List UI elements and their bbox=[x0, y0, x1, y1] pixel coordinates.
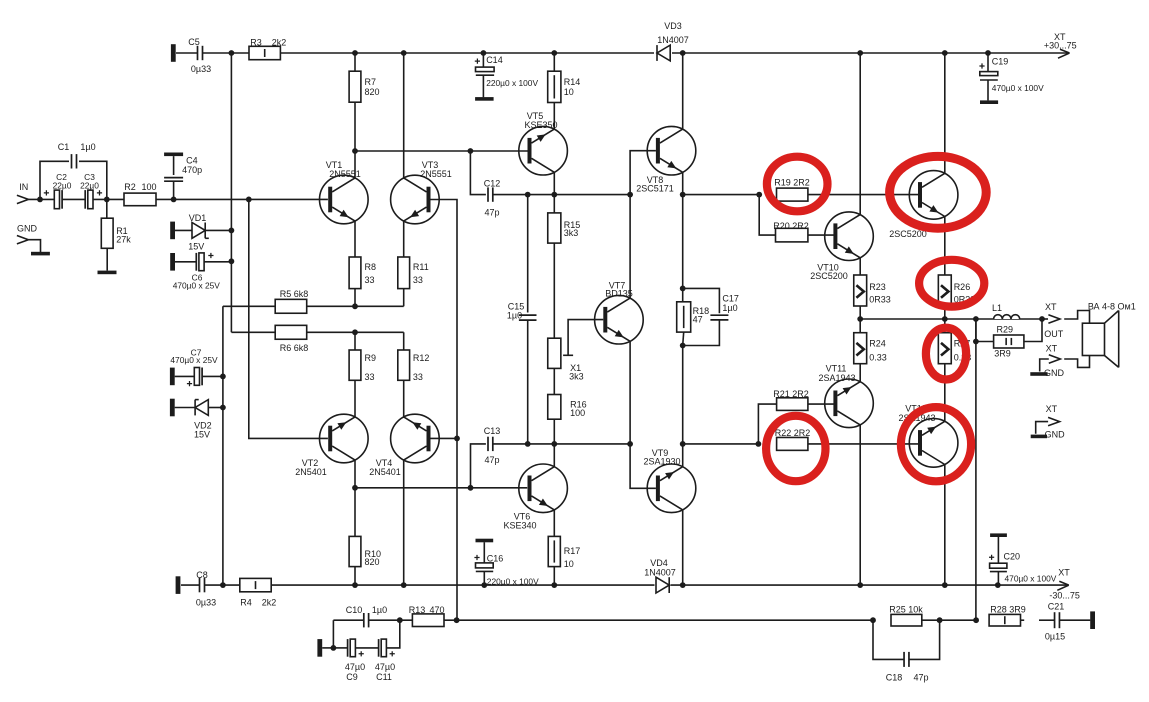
svg-text:470µ0 x 25V: 470µ0 x 25V bbox=[173, 281, 221, 291]
ground bar speaker return bbox=[1030, 372, 1047, 376]
svg-text:R17: R17 bbox=[564, 546, 581, 556]
node VT4 collector rail bbox=[401, 582, 407, 588]
wire IN to C2 bbox=[28, 198, 54, 200]
wire X1 to R16 bbox=[553, 368, 555, 394]
node feedback to VT3/VT4 bases bbox=[454, 617, 460, 623]
speaker cone bbox=[1105, 311, 1119, 368]
wire rail to VT8 collector bbox=[682, 53, 684, 129]
transistor VT3 2N5551 bbox=[391, 175, 440, 224]
capacitor C19 minus plate bbox=[980, 79, 998, 81]
resistor R7 bbox=[349, 71, 361, 102]
wire VT9 collector to rail bbox=[682, 510, 684, 585]
terminal bar C5 bbox=[171, 44, 176, 62]
wire C10 corner down bbox=[332, 620, 334, 648]
svg-text:22µ0: 22µ0 bbox=[53, 180, 72, 190]
wire VT2 collector to R10 bbox=[354, 460, 356, 536]
capacitor C1 bbox=[71, 154, 73, 168]
svg-text:R14: R14 bbox=[564, 77, 581, 87]
node C20 rail bbox=[995, 582, 1001, 588]
wire C3 to R2 bbox=[93, 198, 124, 200]
zener diode VD2 15V bbox=[195, 400, 208, 416]
svg-text:470µ0 x 25V: 470µ0 x 25V bbox=[170, 355, 218, 365]
wire to R21 bbox=[758, 404, 776, 444]
wire C4 to input line bbox=[173, 181, 175, 199]
wire VT5 base line down to C12 bbox=[470, 151, 486, 195]
plus C16 bbox=[474, 555, 479, 560]
wire node to R9 bbox=[354, 332, 356, 350]
wire R5 right to R8/R11 node bbox=[307, 305, 404, 307]
transistor VT11 2SA1943 bbox=[825, 379, 874, 428]
capacitor C16 plus plate bbox=[476, 563, 494, 568]
inductor L1 bbox=[994, 315, 1020, 319]
wire to C21 left plate bbox=[1039, 619, 1054, 621]
svg-text:GND: GND bbox=[1044, 368, 1065, 378]
node R29 left bbox=[973, 339, 979, 345]
resistor R22 bbox=[777, 437, 808, 450]
wire R7 to VT1 collector bbox=[354, 102, 356, 151]
transistor VT2 2N5401 bbox=[320, 414, 369, 463]
terminal bar C20 bbox=[990, 533, 1007, 537]
wire bottom rail left of C8 bbox=[181, 584, 199, 586]
svg-text:+30...75: +30...75 bbox=[1044, 41, 1077, 51]
capacitor C6 bbox=[195, 253, 197, 271]
svg-text:0R33: 0R33 bbox=[869, 295, 891, 305]
capacitor C14 plus plate bbox=[476, 67, 495, 72]
resistor R28 bbox=[989, 614, 1020, 626]
node VT2 collector / VT6 base line bbox=[352, 485, 358, 491]
capacitor C11 bbox=[378, 639, 380, 657]
wire C1 loop left bbox=[40, 161, 69, 199]
wire C6 left bbox=[175, 261, 196, 263]
wire bottom rail VD4 to -V arrow bbox=[671, 584, 1068, 586]
svg-text:470µ0 x 100V: 470µ0 x 100V bbox=[992, 83, 1044, 93]
red ring around R27 bbox=[926, 328, 966, 380]
wire VT7 emitter down bbox=[629, 341, 631, 444]
svg-text:47: 47 bbox=[693, 315, 703, 325]
resistor R18 bbox=[677, 302, 691, 332]
resistor R20 bbox=[776, 228, 808, 242]
wire C3 node to R1 bbox=[106, 199, 108, 218]
wire GND connector bbox=[28, 240, 40, 252]
wire bottom drive line bbox=[493, 443, 630, 445]
svg-text:KSE350: KSE350 bbox=[524, 120, 557, 130]
terminal bar C4 bbox=[164, 153, 183, 157]
svg-text:33: 33 bbox=[413, 372, 423, 382]
wire C2 to C3 bbox=[62, 198, 85, 200]
svg-text:R23: R23 bbox=[869, 282, 886, 292]
wire gnd connector speaker bbox=[1040, 359, 1049, 372]
resistor R10 bbox=[349, 536, 361, 566]
wire top rail VD3 to +V arrow bbox=[672, 52, 1068, 54]
wire to C9 bbox=[333, 647, 347, 649]
resistor R16 bbox=[548, 395, 561, 420]
wire top drive right segment bbox=[683, 194, 760, 196]
wire VT10 emitter to R23 bbox=[859, 258, 861, 275]
wire to R18 bbox=[682, 288, 684, 301]
svg-text:GND: GND bbox=[1045, 429, 1066, 439]
wire to VT5 base bbox=[470, 150, 528, 152]
wire C7 left bbox=[175, 375, 195, 377]
svg-text:R26: R26 bbox=[954, 282, 971, 292]
wire VT5 collector to drive line bbox=[553, 172, 555, 194]
wire R5 left bbox=[223, 305, 275, 307]
wire C18 right branch bbox=[909, 620, 940, 659]
wire R29 to output bbox=[1024, 319, 1042, 342]
node output after L1 bbox=[1039, 316, 1045, 322]
wire C18 left branch bbox=[873, 620, 904, 659]
wire rail to R7 bbox=[354, 53, 356, 71]
svg-text:1µ0: 1µ0 bbox=[722, 303, 737, 313]
wire VD1 left bbox=[175, 229, 192, 231]
wire VT3 emitter to R11 bbox=[403, 221, 405, 257]
wire R2 to VT1 base bbox=[156, 198, 328, 200]
wire C4 bar to plates bbox=[173, 156, 175, 175]
wire VT9 base to drive node bbox=[630, 444, 656, 488]
svg-text:C11: C11 bbox=[376, 672, 392, 682]
terminal bar VD2 bbox=[170, 399, 175, 417]
capacitor C21 bbox=[1054, 612, 1056, 628]
node VT9 base / VT7 emitter bbox=[627, 441, 633, 447]
resistor R4 bbox=[240, 578, 271, 591]
wire R20 to VT10 base bbox=[808, 234, 836, 236]
terminal bar C6 bbox=[170, 253, 175, 271]
node C7 junction bbox=[220, 374, 226, 380]
node VT10 collector rail bbox=[857, 50, 863, 56]
node VT11 collector rail bbox=[857, 582, 863, 588]
wire C15 to bottom drive line bbox=[527, 320, 529, 444]
diode VD4 1N4007 bbox=[656, 577, 669, 593]
svg-text:BD135: BD135 bbox=[605, 289, 633, 299]
svg-text:R2: R2 bbox=[124, 182, 136, 192]
connector XT GND2 arrow bbox=[1048, 417, 1060, 425]
wire C10 to R13 bbox=[369, 619, 412, 621]
red ring around VT12 bbox=[890, 156, 987, 228]
svg-text:C14: C14 bbox=[486, 55, 503, 65]
capacitor C15 bbox=[519, 314, 537, 316]
svg-text:1µ0: 1µ0 bbox=[80, 142, 95, 152]
wire R1 to ground bbox=[106, 248, 108, 270]
wire VD2 to bias vertical bbox=[208, 407, 223, 409]
svg-text:KSE340: KSE340 bbox=[503, 521, 536, 531]
svg-text:2SA1943: 2SA1943 bbox=[818, 373, 855, 383]
terminal bar C16 bbox=[476, 539, 494, 543]
wire C1 loop right bbox=[79, 161, 107, 199]
node C16 rail bbox=[481, 582, 487, 588]
wire top rail C5 to VD3 bbox=[203, 52, 654, 54]
svg-text:2N5401: 2N5401 bbox=[369, 467, 401, 477]
wire C10 left bbox=[333, 619, 363, 621]
node C14 rail bbox=[481, 50, 487, 56]
resistor R5 bbox=[275, 299, 307, 313]
svg-text:10: 10 bbox=[564, 87, 574, 97]
wiper tick X1 bbox=[563, 354, 573, 356]
svg-text:2SC5200: 2SC5200 bbox=[810, 271, 848, 281]
wire R25 to R28 node bbox=[922, 619, 976, 621]
svg-text:-30...75: -30...75 bbox=[1049, 590, 1080, 600]
svg-text:1µ0: 1µ0 bbox=[372, 605, 387, 615]
svg-text:R13: R13 bbox=[409, 605, 426, 615]
red ring around R19 bbox=[767, 157, 828, 212]
node VT3 collector rail bbox=[401, 50, 407, 56]
wire C7 to bias vertical bbox=[202, 375, 223, 377]
svg-text:27k: 27k bbox=[116, 234, 131, 244]
node VT4 base feedback bbox=[454, 436, 460, 442]
wire VT12 emitter to R26 bbox=[944, 217, 946, 276]
svg-text:33: 33 bbox=[413, 275, 423, 285]
svg-text:R6 6k8: R6 6k8 bbox=[280, 343, 309, 353]
node R18/C17 bottom bbox=[680, 343, 686, 349]
wire R16 to bottom drive line bbox=[553, 419, 555, 444]
wire C6 to bias vertical bbox=[205, 261, 232, 263]
wire C11 up to feedback bbox=[386, 620, 399, 648]
node R16 bottom / VT6 collector bbox=[551, 441, 557, 447]
node C15 top bbox=[525, 192, 531, 198]
wire R14 to VT5 emitter bbox=[553, 103, 555, 130]
svg-text:2k2: 2k2 bbox=[262, 598, 277, 608]
wire to R20 bbox=[759, 195, 775, 236]
resistor R11 bbox=[398, 257, 410, 289]
transistor VT1 2N5551 bbox=[320, 175, 369, 224]
wire R12 to VT4 emitter bbox=[403, 380, 405, 417]
svg-text:R9: R9 bbox=[365, 353, 377, 363]
zener diode VD1 15V bbox=[192, 223, 205, 239]
svg-text:R20 2R2: R20 2R2 bbox=[773, 221, 809, 231]
svg-text:C9: C9 bbox=[346, 672, 358, 682]
wire R22 to VT13 base bbox=[808, 443, 918, 445]
terminal bar C19 bbox=[980, 100, 998, 104]
capacitor C9 bbox=[347, 639, 349, 657]
wire top rail left of C5 bbox=[176, 52, 197, 54]
capacitor C19 plus plate bbox=[980, 72, 998, 76]
wire R19 to VT12 base bbox=[808, 194, 918, 196]
node after C3 bbox=[104, 197, 110, 203]
svg-text:470p: 470p bbox=[182, 165, 202, 175]
node output to R29/feedback bbox=[973, 316, 979, 322]
svg-text:47p: 47p bbox=[484, 455, 499, 465]
capacitor C10 bbox=[363, 613, 365, 627]
svg-text:100: 100 bbox=[141, 182, 156, 192]
svg-text:IN: IN bbox=[19, 182, 28, 192]
node R15 top / VT5 collector bbox=[551, 192, 557, 198]
red ring around R26 bbox=[919, 260, 984, 307]
svg-text:0µ15: 0µ15 bbox=[1045, 632, 1065, 642]
svg-text:R3: R3 bbox=[250, 37, 262, 47]
svg-text:33: 33 bbox=[365, 275, 375, 285]
terminal bar VD1 bbox=[170, 222, 175, 240]
svg-text:R22 2R2: R22 2R2 bbox=[775, 428, 811, 438]
wire R28 to C21 bbox=[1021, 619, 1025, 621]
transistor VT6 KSE340 bbox=[519, 464, 568, 513]
wire R18 bottom bbox=[683, 332, 684, 345]
svg-text:470µ0 x 100V: 470µ0 x 100V bbox=[1005, 573, 1057, 583]
node input to VT2 branch bbox=[246, 197, 252, 203]
capacitor C16 minus plate bbox=[476, 570, 493, 572]
capacitor C20 minus plate bbox=[990, 571, 1007, 573]
connector GND arrow bbox=[17, 236, 29, 244]
svg-text:0.33: 0.33 bbox=[869, 352, 887, 362]
wire X1 wiper to VT7 base bbox=[568, 320, 603, 356]
red ring around VT13 bbox=[901, 407, 971, 481]
resistor R12 bbox=[398, 350, 410, 380]
wire C17 bottom branch bbox=[683, 320, 720, 346]
wire VT13 emitter to R27 bbox=[944, 364, 946, 422]
capacitor C2 bbox=[54, 190, 59, 209]
transistor VT4 2N5401 bbox=[391, 414, 440, 463]
svg-text:C10: C10 bbox=[346, 605, 363, 615]
plus C14 bbox=[475, 59, 480, 64]
transistor VT12 2SC5200 bbox=[909, 171, 958, 220]
wire R9 to VT2 emitter bbox=[354, 380, 356, 417]
wire VT4 base bbox=[431, 437, 458, 439]
wire gnd2 connector bbox=[1036, 422, 1048, 434]
svg-text:2SC5171: 2SC5171 bbox=[636, 183, 674, 193]
wire rail to VT10 collector bbox=[859, 53, 861, 215]
ground bar gnd2 bbox=[1031, 435, 1047, 439]
svg-text:R29: R29 bbox=[997, 324, 1014, 334]
terminal bar C9 left bbox=[317, 639, 322, 657]
trimmer X1 bbox=[548, 338, 561, 368]
svg-text:C12: C12 bbox=[484, 178, 501, 188]
terminal bar C14 bbox=[475, 97, 494, 101]
svg-text:OUT: OUT bbox=[1044, 329, 1064, 339]
wire VD2 left bbox=[175, 407, 196, 409]
svg-text:XT: XT bbox=[1058, 568, 1070, 578]
svg-text:R8: R8 bbox=[365, 262, 377, 272]
wire C9 to C11 bbox=[356, 647, 379, 649]
node VT9 emitter bbox=[680, 441, 686, 447]
svg-text:R5 6k8: R5 6k8 bbox=[280, 289, 309, 299]
transistor VT5 KSE350 bbox=[519, 126, 568, 175]
wire bottom drive right segment bbox=[683, 443, 759, 445]
wire VT9 emitter bbox=[682, 444, 684, 467]
wire feedback line bbox=[444, 619, 873, 621]
wire speaker bottom return bbox=[1064, 356, 1089, 368]
node R8 bottom bbox=[352, 303, 358, 309]
wire rail to C19 bbox=[987, 53, 989, 72]
ground bar R1 bbox=[98, 271, 117, 275]
wire rail to C14 bbox=[482, 53, 484, 67]
wire drive line to C15 bbox=[527, 195, 529, 313]
node VD1 junction bbox=[229, 228, 235, 234]
svg-text:2N5551: 2N5551 bbox=[329, 169, 361, 179]
diode VD3 1N4007 bbox=[657, 45, 670, 61]
svg-text:2SA1930: 2SA1930 bbox=[643, 457, 680, 467]
resistor R3 bbox=[249, 46, 280, 59]
wire output node line bbox=[860, 318, 1042, 320]
svg-text:ВА 4-8 Ом1: ВА 4-8 Ом1 bbox=[1088, 302, 1136, 312]
node VT6 base line to C13 bbox=[468, 485, 474, 491]
wire rail to VT3 collector bbox=[403, 53, 405, 178]
wire VT4 collector to rail bbox=[403, 460, 405, 585]
wire VT6 base line up to C13 bbox=[471, 444, 486, 488]
node R14 rail bbox=[551, 50, 557, 56]
transistor VT13 2SA1943 bbox=[909, 419, 958, 468]
svg-text:C8: C8 bbox=[196, 570, 208, 580]
node R10 rail bbox=[352, 582, 358, 588]
wire node to R12 bbox=[403, 332, 405, 350]
svg-text:C18: C18 bbox=[886, 673, 903, 683]
wire output to R29 bbox=[976, 319, 994, 342]
svg-text:2k2: 2k2 bbox=[272, 37, 287, 47]
svg-text:C21: C21 bbox=[1048, 602, 1065, 612]
node R25 right bbox=[937, 617, 943, 623]
connector XT OUT arrow bbox=[1048, 315, 1060, 323]
wire VT6 emitter to R17 bbox=[553, 510, 555, 537]
wire C16 bar to plates bbox=[483, 542, 485, 563]
svg-text:47µ0: 47µ0 bbox=[345, 662, 365, 672]
svg-text:2N5551: 2N5551 bbox=[420, 169, 452, 179]
node VT5 base line to C12 bbox=[468, 148, 474, 154]
svg-text:22µ0: 22µ0 bbox=[80, 180, 99, 190]
svg-text:1µ0: 1µ0 bbox=[507, 310, 522, 320]
svg-text:2N5401: 2N5401 bbox=[295, 467, 327, 477]
resistor R24 bbox=[854, 333, 867, 364]
capacitor C17 bbox=[710, 314, 728, 316]
wire VT5 base line left bbox=[355, 150, 470, 152]
wire VD1 to bias vertical bbox=[205, 229, 231, 231]
resistor R17 bbox=[548, 536, 560, 566]
wire output line to R27 bbox=[944, 319, 946, 333]
node VD2 junction bbox=[220, 405, 226, 411]
wire VT6 collector to drive line bbox=[553, 444, 555, 467]
svg-text:VT11: VT11 bbox=[826, 363, 847, 373]
wire top drive line bbox=[493, 194, 630, 196]
svg-text:GND: GND bbox=[17, 223, 38, 233]
node VT8 collector rail bbox=[680, 50, 686, 56]
node R26/R27 output bbox=[942, 316, 948, 322]
wire VT11 collector to rail bbox=[859, 425, 861, 585]
red ring around R22 bbox=[766, 416, 825, 481]
wire R23 to output line bbox=[859, 306, 861, 319]
svg-text:47p: 47p bbox=[484, 208, 499, 218]
wire R17 to rail bbox=[553, 567, 555, 586]
wire rail to R14 bbox=[553, 53, 555, 71]
svg-text:R21 2R2: R21 2R2 bbox=[773, 389, 809, 399]
svg-text:47µ0: 47µ0 bbox=[375, 662, 395, 672]
node input jack bbox=[37, 197, 43, 203]
transistor VT10 2SC5200 bbox=[825, 212, 874, 261]
svg-text:820: 820 bbox=[365, 557, 380, 567]
svg-text:VD1: VD1 bbox=[189, 213, 207, 223]
node R9 top bbox=[352, 329, 358, 335]
svg-text:L1: L1 bbox=[992, 303, 1002, 313]
wire R10 to rail bbox=[354, 567, 356, 586]
wire R11 to node bbox=[403, 289, 405, 307]
wire bottom rail C8 to VD4 bbox=[205, 584, 655, 586]
wire VT8 emitter down bbox=[682, 172, 684, 194]
svg-text:3k3: 3k3 bbox=[564, 228, 579, 238]
wire C20 bar to plates bbox=[997, 537, 999, 563]
svg-text:XT: XT bbox=[1045, 302, 1057, 312]
wire drive line to R15 bbox=[553, 195, 555, 213]
svg-text:R19 2R2: R19 2R2 bbox=[774, 178, 810, 188]
plus C19 bbox=[979, 63, 984, 68]
capacitor C20 plus plate bbox=[990, 563, 1007, 568]
capacitor C14 minus plate bbox=[476, 74, 494, 76]
wire C21 to terminal bbox=[1059, 619, 1090, 621]
node electrolytic line left bbox=[331, 645, 337, 651]
svg-text:VD3: VD3 bbox=[664, 21, 682, 31]
resistor R9 bbox=[349, 350, 361, 380]
svg-text:C13: C13 bbox=[484, 426, 501, 436]
capacitor C5 bbox=[197, 46, 199, 60]
transistor VT9 2SA1930 bbox=[647, 464, 696, 513]
resistor R27 bbox=[938, 333, 951, 364]
svg-text:R12: R12 bbox=[413, 353, 430, 363]
node C15 bottom bbox=[525, 441, 531, 447]
node C9/C11 branch top bbox=[397, 617, 403, 623]
wire VT7 collector up bbox=[629, 195, 631, 299]
